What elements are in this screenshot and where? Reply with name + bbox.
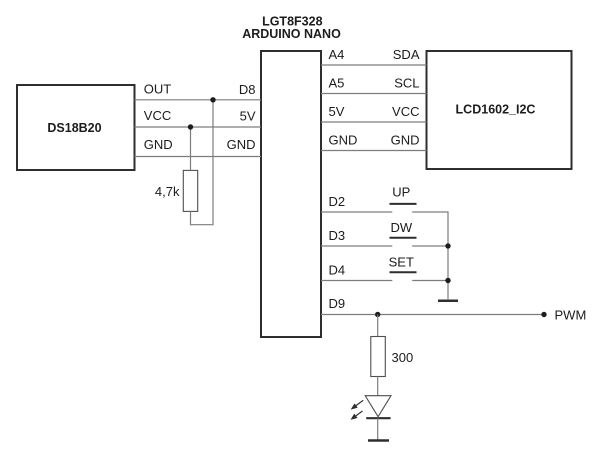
svg-text:SCL: SCL	[394, 76, 419, 91]
svg-text:VCC: VCC	[144, 108, 171, 123]
svg-text:SET: SET	[389, 254, 414, 269]
switch SW2 DW bar	[390, 237, 417, 239]
junction dot on D9 wire	[375, 312, 380, 317]
wire 5V to VCC (right)	[321, 121, 427, 123]
terminal dot PWM	[541, 312, 546, 317]
wire D4 to switch SW3 left	[321, 280, 392, 282]
svg-text:5V: 5V	[240, 109, 256, 124]
svg-text:LCD1602_I2C: LCD1602_I2C	[456, 103, 536, 117]
svg-text:GND: GND	[227, 137, 256, 152]
svg-text:PWM: PWM	[555, 308, 587, 323]
wire A5 to SCL	[321, 93, 427, 95]
svg-text:D3: D3	[329, 228, 346, 243]
wire VCC to 5V	[135, 126, 262, 128]
junction dot on OUT-D8 wire	[210, 97, 215, 102]
svg-text:OUT: OUT	[144, 82, 172, 97]
resistor R2 300 body	[371, 337, 386, 377]
wire SW2 right to bus	[412, 245, 448, 247]
wire LED cathode to ground	[377, 418, 379, 439]
LED D1 cathode bar	[366, 417, 390, 419]
svg-text:300: 300	[392, 350, 414, 365]
component U2 DS18B20 temperature sensor box	[17, 85, 135, 170]
svg-text:DS18B20: DS18B20	[47, 121, 101, 135]
svg-text:SDA: SDA	[393, 47, 420, 62]
switch SW1 UP bar	[390, 203, 417, 205]
svg-text:D2: D2	[329, 194, 346, 209]
wire OUT to D8	[135, 99, 262, 101]
svg-text:A5: A5	[329, 76, 345, 91]
svg-text:ARDUINO NANO: ARDUINO NANO	[242, 27, 341, 41]
svg-text:D4: D4	[329, 262, 346, 277]
component U3 LCD1602_I2C display box	[427, 51, 572, 169]
LED D1 triangle	[365, 396, 391, 417]
svg-text:UP: UP	[392, 185, 410, 200]
wire GND to GND (left)	[135, 156, 262, 158]
wire SW1 right to bus	[412, 212, 448, 299]
svg-text:D9: D9	[329, 296, 346, 311]
wire D2 to switch SW1 left	[321, 211, 392, 213]
ground symbol below LED	[368, 439, 389, 442]
wire SW3 right to bus	[412, 280, 448, 282]
junction dot on VCC-5V wire	[188, 124, 193, 129]
svg-text:D8: D8	[239, 82, 256, 97]
svg-text:5V: 5V	[329, 104, 345, 119]
wire D9 dot to R2 top	[377, 315, 379, 337]
svg-text:VCC: VCC	[392, 104, 419, 119]
switch SW3 SET bar	[390, 271, 417, 273]
svg-text:DW: DW	[390, 220, 412, 235]
ground symbol below button bus	[438, 300, 458, 303]
wire D3 to switch SW2 left	[321, 245, 392, 247]
svg-text:4,7k: 4,7k	[155, 184, 180, 199]
component U1 LGT8F328 ARDUINO NANO box	[242, 15, 341, 338]
wire R2 bottom to LED anode	[377, 377, 379, 396]
wire D9 to PWM	[321, 314, 544, 316]
junction dot bus at D4 row	[445, 278, 450, 283]
junction dot bus at D3 row	[445, 243, 450, 248]
LED emission arrow 1	[352, 400, 363, 408]
wire GND to GND (right)	[321, 150, 427, 152]
svg-text:A4: A4	[329, 47, 345, 62]
svg-text:GND: GND	[144, 137, 173, 152]
wire VCC dot to R1 top	[190, 127, 192, 170]
svg-text:GND: GND	[391, 133, 420, 148]
LED emission arrow 2	[352, 411, 363, 419]
wire A4 to SDA	[321, 64, 427, 66]
resistor R1 4,7k body	[183, 170, 197, 211]
wire R1 bottom loop to OUT line	[191, 100, 214, 225]
svg-text:GND: GND	[329, 133, 358, 148]
